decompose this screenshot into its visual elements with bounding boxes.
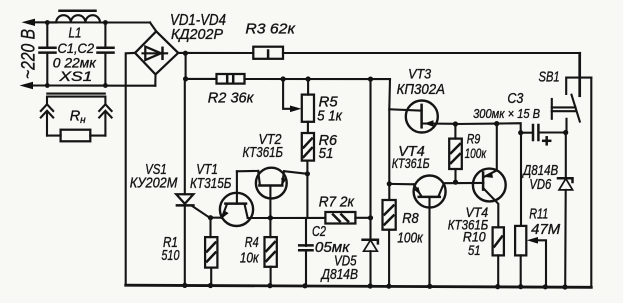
zener VD5 [363,79,378,289]
resistor R2 [217,74,245,84]
svg-text:XS1: XS1 [58,69,92,84]
emitter [222,204,227,218]
node bridge + output [183,51,188,56]
resistor R10 [493,227,504,289]
svg-text:R8: R8 [402,211,419,227]
resistor Rn [47,130,105,142]
svg-text:КТ361Б: КТ361Б [243,144,284,161]
capacitor C2 [299,218,312,288]
wire [28,84,105,86]
collector [439,184,444,196]
thyristor VS1 [176,79,222,288]
resistor R6 [302,122,314,177]
svg-text:КУ202М: КУ202М [130,175,178,192]
wiper [283,79,292,109]
wire [30,21,106,23]
svg-text:R4: R4 [245,234,259,251]
wire VT2 emitter to R6 [284,171,307,174]
wire ground bus [126,285,592,287]
svg-text:47М: 47М [531,222,561,238]
base down [269,186,271,218]
wire top rail [178,53,580,96]
svg-text:R9: R9 [467,131,481,146]
transistor VT1 [220,171,253,226]
svg-text:100к: 100к [397,231,423,247]
svg-text:C1,C2: C1,C2 [58,41,95,56]
wire [126,53,135,285]
svg-text:51: 51 [319,145,334,162]
switch SB1 [552,53,592,135]
resistor R11 trimmer [515,133,548,290]
wire gate [193,206,222,218]
transistor VT4 (first) [389,176,445,289]
svg-text:~220 В: ~220 В [19,29,40,79]
svg-text:L1: L1 [69,26,82,42]
svg-text:КТ361Б: КТ361Б [392,155,430,171]
bridge rectifier VD1-VD4 [126,23,188,286]
collector [245,204,248,218]
transistor VT3 [406,101,456,133]
node mains input arrows [20,19,106,90]
emitter with arrow [389,183,413,186]
svg-text:5 1к: 5 1к [317,107,343,124]
svg-text:R3 62к: R3 62к [245,21,295,38]
wire collector rail mid [248,215,373,220]
svg-text:КТ315Б: КТ315Б [190,175,232,192]
svg-text:R2 36к: R2 36к [208,89,255,106]
wire second rail [183,53,390,81]
transistor VT4 (second) [473,124,506,228]
wire right rail [590,78,592,288]
svg-text:R7 2к: R7 2к [319,194,355,211]
svg-text:10к: 10к [240,250,260,267]
emitter with arrow [483,124,496,178]
wire [150,23,156,32]
capacitor C3 [521,125,566,144]
svg-text:100к: 100к [465,146,487,161]
svg-text:51: 51 [468,242,481,258]
wiper [536,240,546,286]
wire AC bottom [47,84,155,86]
svg-text:VD6: VD6 [529,177,552,193]
collector [258,171,260,185]
potentiometer R5 [283,79,314,122]
resistor R8 [383,200,396,289]
wire VT1 base to VT2 collector [237,170,258,173]
resistor R3 [253,47,283,59]
svg-text:510: 510 [161,247,180,264]
source with arrow [422,122,456,124]
capacitor C2 (input) [98,20,114,88]
svg-text:КД202Р: КД202Р [171,26,223,43]
inductor L1 [47,11,150,23]
svg-text:C2: C2 [312,223,326,240]
svg-text:R11: R11 [529,206,548,222]
capacitor C1 [40,20,56,88]
svg-text:300мк × 15 В: 300мк × 15 В [473,106,540,121]
resistor R1 [205,215,217,288]
wire gate rail [387,79,422,200]
wire emitter rail to VT4 second base [444,182,484,184]
zener VD6 [558,133,573,290]
transistor VT2 [256,168,287,218]
svg-text:Д814В: Д814В [320,266,358,283]
svg-text:КП302А: КП302А [397,82,445,98]
wire [154,74,156,85]
resistor R4 [265,218,277,288]
svg-text:C3: C3 [507,91,523,107]
wire R6 node down to C2 [306,174,308,218]
plug contact right [99,97,111,136]
emitter with arrow [282,171,284,185]
plug contact left [41,97,53,136]
wire VT3 source rail [453,121,524,135]
base down [428,197,430,286]
connector XS1 separation [47,94,105,97]
collector [483,188,498,227]
svg-text:SB1: SB1 [539,68,560,85]
resistor R7 [325,212,355,224]
resistor R9 [449,124,462,185]
svg-text:VT3: VT3 [408,66,431,82]
